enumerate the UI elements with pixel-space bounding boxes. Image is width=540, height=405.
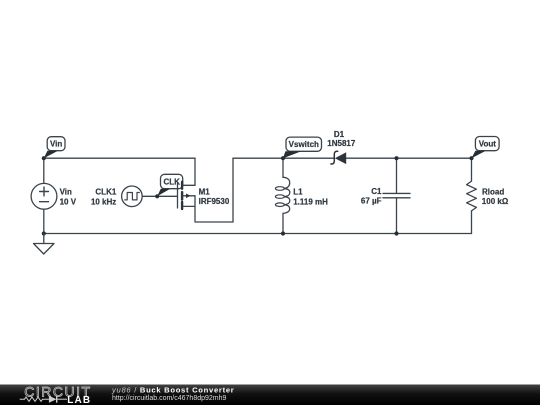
- capacitor C1 top plate: [383, 192, 410, 194]
- svg-text:Vin: Vin: [50, 140, 62, 149]
- clock source square-wave glyph: [125, 193, 140, 200]
- inductor L1 loop ellipse 1: [275, 187, 284, 191]
- svg-text:67 µF: 67 µF: [361, 196, 382, 205]
- node Vin flag pointer: [44, 151, 58, 159]
- wire C1 top stub: [396, 158, 398, 193]
- svg-text:D1: D1: [334, 130, 345, 139]
- transistor M1 channel segment middle: [181, 192, 183, 200]
- wire CLK1 output to M1 gate: [142, 195, 177, 197]
- transistor M1 source terminal: [183, 205, 195, 207]
- transistor M1 drain terminal: [183, 184, 195, 186]
- junction dot CLK wire: [155, 194, 159, 198]
- wire Rload bottom stub: [471, 211, 473, 234]
- svg-text:IRF9530: IRF9530: [199, 197, 230, 206]
- wire D1 anode to Vout node: [346, 157, 471, 159]
- svg-text:L1: L1: [293, 188, 303, 197]
- resistor Rload zigzag: [467, 181, 477, 211]
- transistor M1 gate bar: [177, 183, 179, 208]
- junction dot Vswitch node: [281, 156, 285, 160]
- svg-text:http://circuitlab.com/c467h8dp: http://circuitlab.com/c467h8dp92mh9: [112, 395, 227, 402]
- clock source CLK1 circle: [122, 186, 143, 207]
- transistor M1 channel segment bottom: [181, 202, 183, 209]
- svg-text:100 kΩ: 100 kΩ: [482, 197, 509, 206]
- svg-text:M1: M1: [199, 187, 211, 196]
- junction dot L1 bottom: [281, 231, 285, 235]
- wire C1 bottom stub: [396, 198, 398, 234]
- svg-text:yu86 / Buck Boost Converter: yu86 / Buck Boost Converter: [111, 385, 234, 394]
- ground symbol: [34, 234, 55, 255]
- diode D1 triangle: [335, 152, 346, 164]
- voltage source minus sign: [40, 201, 49, 203]
- junction dot ground node: [42, 231, 46, 235]
- svg-text:Vout: Vout: [479, 140, 497, 149]
- svg-text:LAB: LAB: [67, 395, 91, 405]
- node Vout flag pointer: [472, 151, 486, 159]
- junction dot Vout node: [469, 156, 473, 160]
- svg-text:C1: C1: [371, 187, 382, 196]
- CircuitLab logo wire with resistor and diode: [20, 397, 49, 401]
- wire Vswitch node to D1 cathode: [283, 157, 334, 159]
- wire top rail to Vswitch node: [233, 157, 283, 159]
- node CLK flag box: [161, 174, 183, 188]
- junction dot C1 top: [394, 156, 398, 160]
- svg-text:Vin: Vin: [60, 188, 72, 197]
- wire M1 drain riser: [194, 158, 196, 185]
- node Vin flag box: [47, 137, 65, 151]
- svg-text:10 kHz: 10 kHz: [91, 198, 116, 207]
- transistor M1 channel segment top: [181, 182, 183, 189]
- svg-text:10 V: 10 V: [60, 198, 77, 207]
- wire riser up to top rail: [232, 158, 234, 222]
- node Vswitch flag pointer: [283, 151, 301, 158]
- wire L1 top stub: [282, 158, 284, 177]
- svg-text:Rload: Rload: [482, 188, 504, 197]
- capacitor C1 bottom plate: [383, 197, 410, 199]
- junction dot Vin node: [42, 156, 46, 160]
- wire L1 bottom stub: [282, 213, 284, 233]
- svg-text:Vswitch: Vswitch: [289, 140, 319, 149]
- node Vswitch flag box: [286, 137, 322, 151]
- svg-text:CLK1: CLK1: [95, 188, 116, 197]
- svg-text:1.119 mH: 1.119 mH: [293, 198, 328, 207]
- node Vout flag box: [475, 137, 499, 151]
- wire Rload top stub: [471, 158, 473, 181]
- inductor L1 loop ellipse 3: [275, 203, 284, 207]
- inductor L1 coil right arcs: [283, 177, 290, 213]
- wire Vin node down to source Vin top: [43, 158, 45, 183]
- wire top rail left (Vin node to M1 drain riser): [44, 157, 195, 159]
- voltage source plus sign: [40, 187, 49, 196]
- junction dot C1 bottom: [394, 231, 398, 235]
- wire source Vin bottom to ground rail: [43, 209, 45, 234]
- diode D1 schottky cathode bar: [331, 151, 338, 164]
- node CLK flag pointer: [157, 189, 170, 197]
- transistor M1 body terminal with arrow: [183, 195, 195, 197]
- wire M1 source down and over to riser: [195, 196, 233, 222]
- wire bottom rail: [44, 233, 472, 235]
- voltage source Vin circle: [31, 183, 57, 209]
- inductor L1 loop ellipse 2: [275, 195, 284, 199]
- svg-text:1N5817: 1N5817: [327, 139, 356, 148]
